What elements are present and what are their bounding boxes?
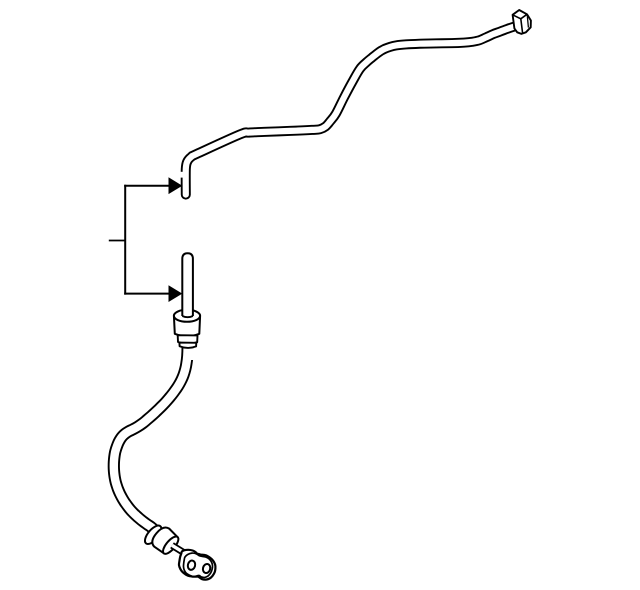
hose highlight break	[191, 348, 197, 360]
neck tube outer	[172, 545, 186, 554]
hose H1 outer stroke	[114, 347, 188, 530]
callout bracket vertical line	[124, 185, 126, 295]
metal tube T1	[182, 253, 193, 317]
pipe P1 inner white	[186, 27, 515, 195]
connector collar step2	[179, 343, 196, 348]
hose H1 inner white	[114, 347, 188, 530]
pipe P1 outer stroke	[186, 27, 515, 195]
flare nut body	[513, 10, 531, 34]
pipe highlight break	[180, 172, 184, 178]
crimp entry ring	[142, 523, 164, 547]
neck tube white	[172, 545, 186, 554]
banjo block outline	[179, 550, 216, 580]
callout left tick	[109, 240, 125, 242]
callout bracket bottom horizontal line	[124, 293, 170, 295]
arrowhead bottom	[169, 285, 183, 302]
connector collar step1	[178, 335, 198, 344]
crimp main body	[149, 524, 182, 557]
banjo face contour	[183, 553, 212, 577]
arrowhead top	[169, 177, 183, 194]
connector collar body	[174, 316, 200, 336]
banjo hole right	[202, 563, 211, 574]
connector collar rim ellipse	[174, 310, 200, 322]
banjo hole left	[187, 560, 196, 571]
callout bracket top horizontal line	[124, 185, 170, 187]
